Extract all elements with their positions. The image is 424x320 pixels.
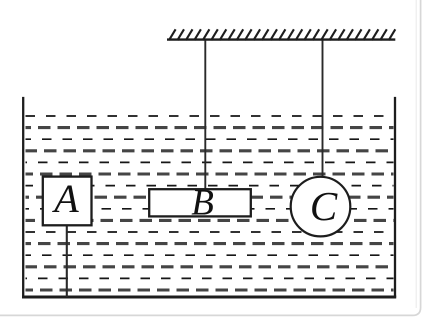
inner faint right line [415, 0, 417, 308]
wire: water dash row (thin) y=278.4 [26, 277, 394, 279]
wire: water dash row (thick) y=150.8 [26, 149, 394, 152]
wire: water dash row (thick) y=220.4 [26, 219, 394, 222]
wire: water dash row (thin) y=232.0 [26, 231, 394, 233]
wire: string from A to tank bottom [66, 225, 68, 297]
svg-text:A: A [51, 176, 79, 221]
wire: water dash row (thick) y=174.0 [26, 172, 394, 175]
bar B [149, 189, 251, 216]
wire: water dash row (thin) y=162.4 [26, 161, 394, 163]
wire: water dash row (thick) y=127.6 [26, 126, 394, 129]
wire: string from ceiling to C [322, 41, 324, 179]
block A [43, 177, 92, 226]
wire: water dash row (thin) y=208.8 [26, 208, 394, 210]
ceiling hatching [169, 29, 395, 40]
ball C [291, 177, 351, 237]
wire: water dash row (thick) y=243.6 [26, 242, 394, 245]
tank right wall [394, 97, 396, 298]
wire: water dash row (thick) y=197.2 [26, 196, 394, 199]
wire: water dash row (thick) y=266.8 [26, 265, 394, 268]
svg-text:B: B [191, 183, 214, 224]
wire: water dash row (thin) y=116.0 [26, 115, 394, 117]
wire: water dash row (thin) y=185.6 [26, 185, 394, 187]
wire: water dash row (thick) y=290.0 [26, 288, 394, 291]
wire: water dash row (thin) y=255.2 [26, 254, 394, 256]
tank left wall [22, 97, 24, 298]
tank bottom [22, 296, 396, 299]
ceiling line [167, 38, 395, 40]
wire: water dash row (thin) y=139.2 [26, 138, 394, 140]
wire: string from ceiling to B [204, 41, 206, 191]
svg-text:C: C [310, 183, 338, 229]
